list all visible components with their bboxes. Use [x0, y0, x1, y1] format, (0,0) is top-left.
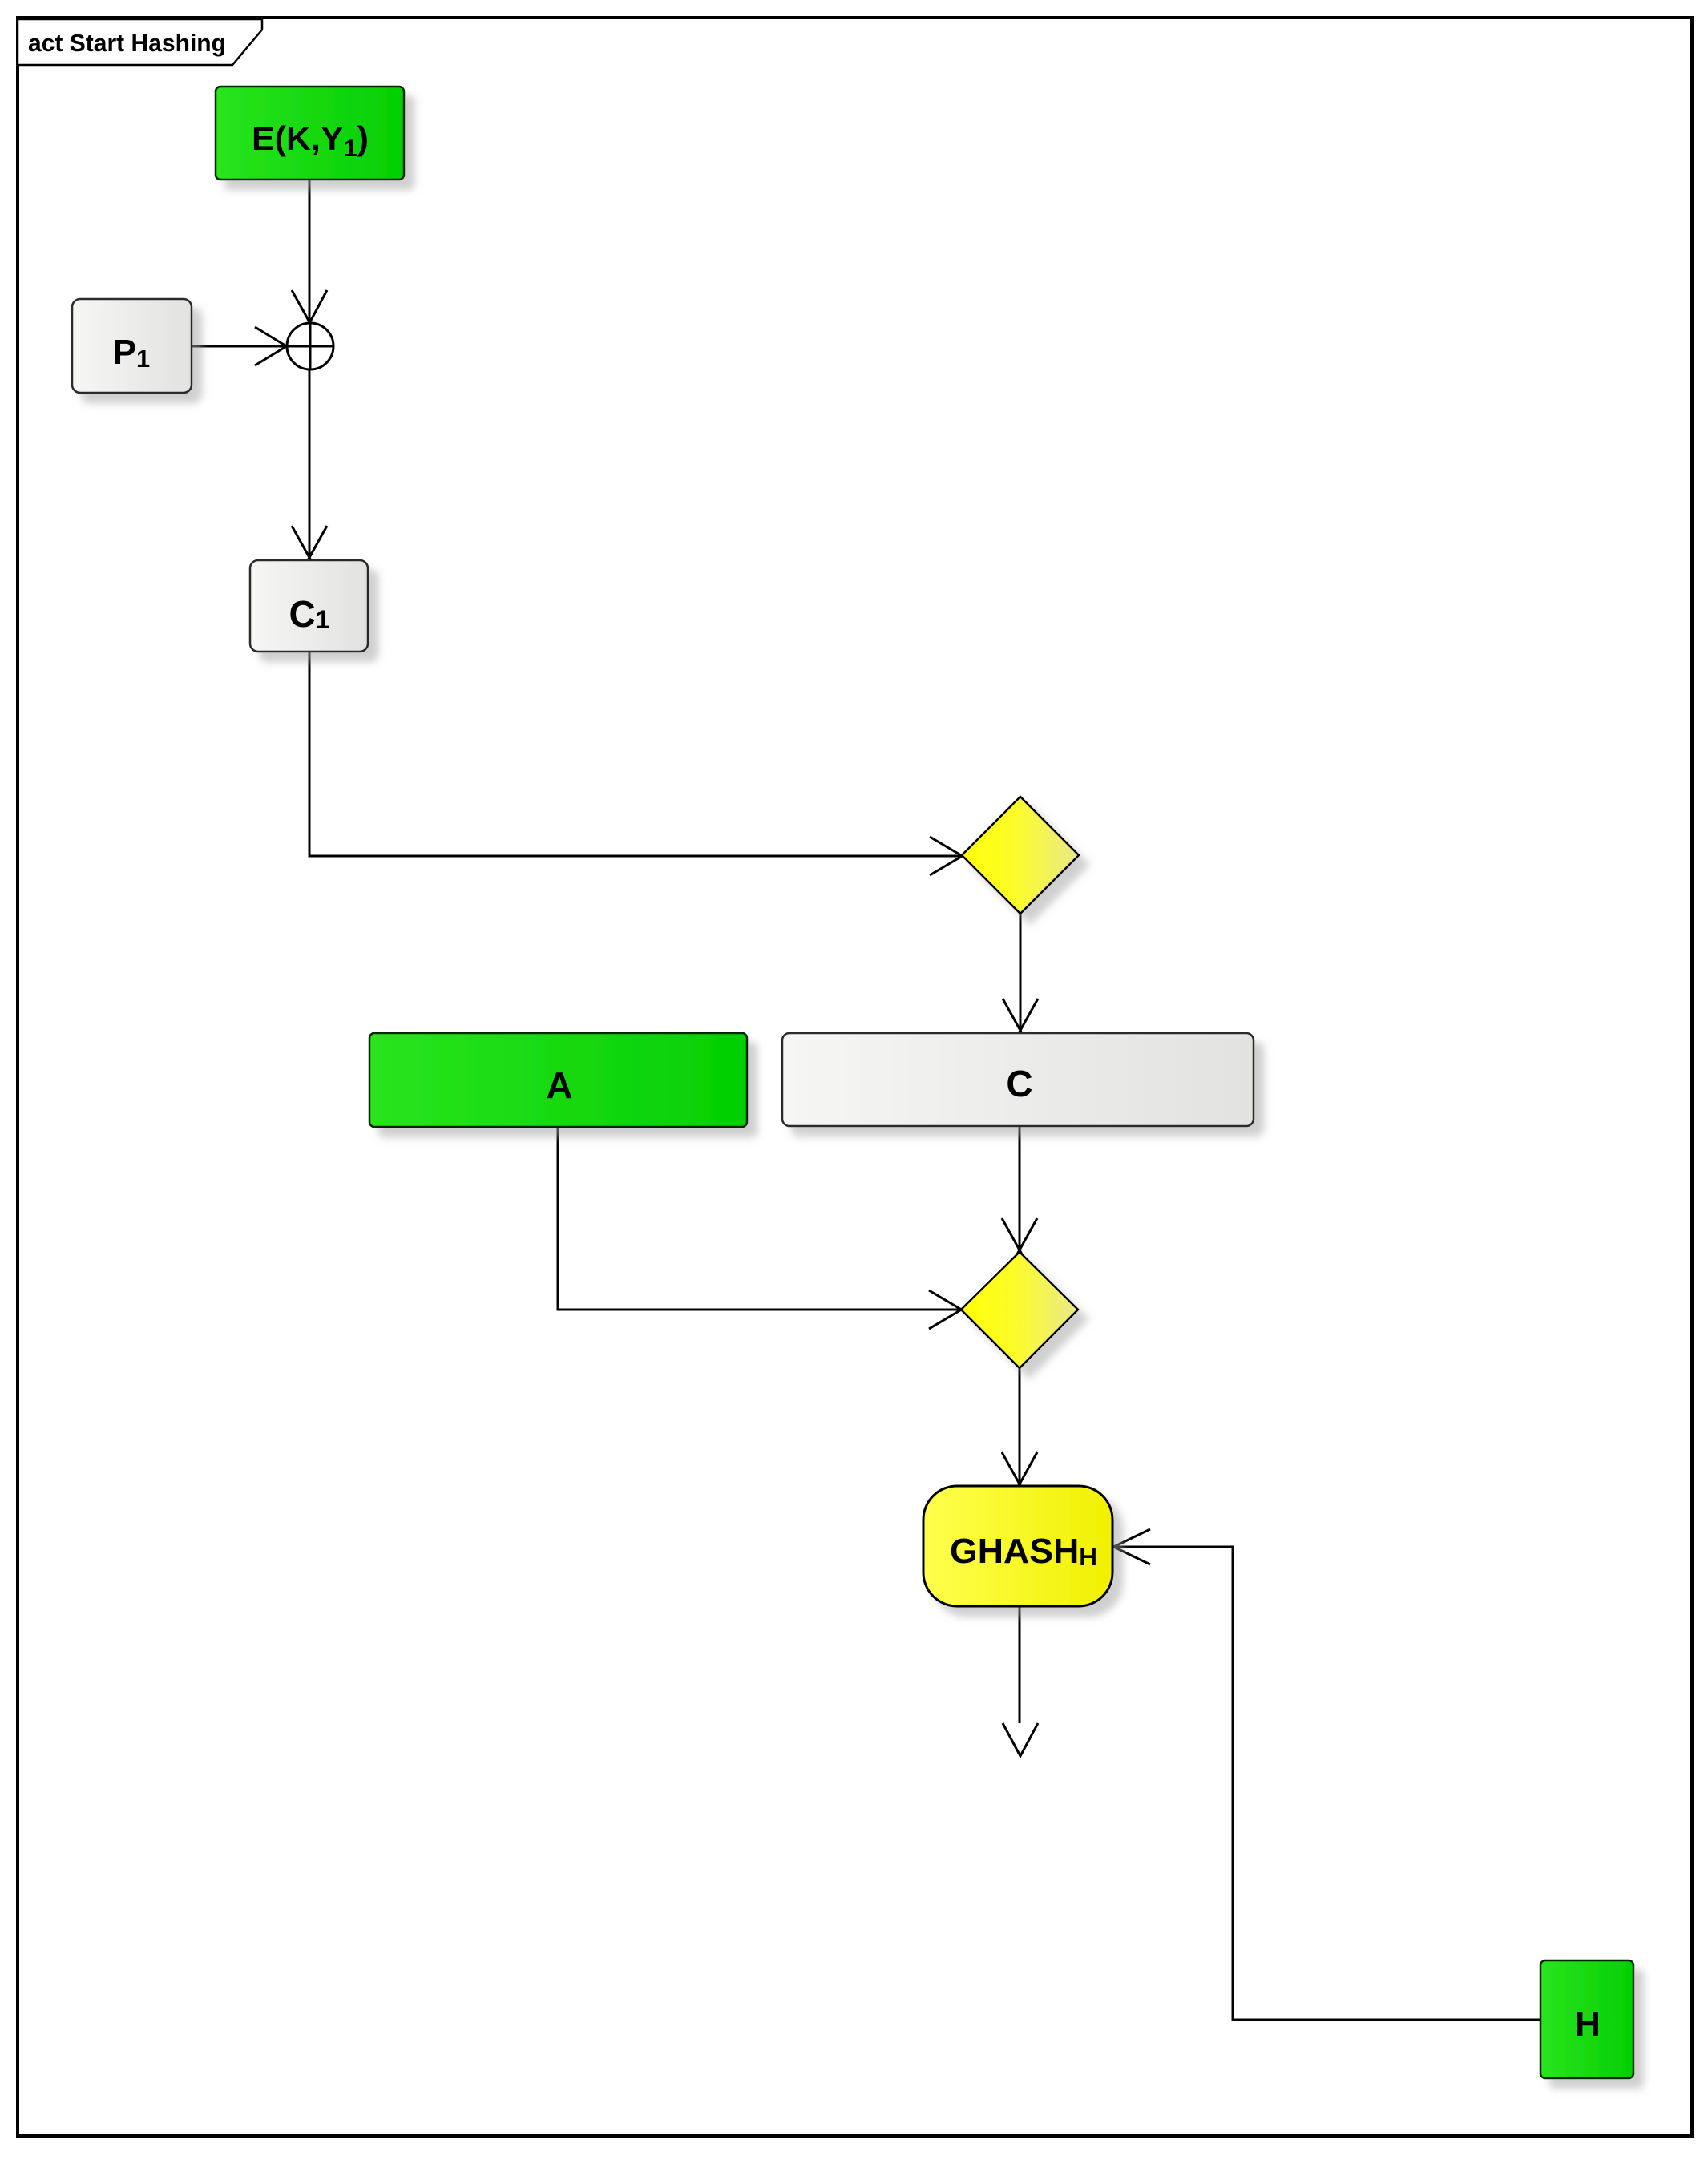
svg-text:act Start Hashing: act Start Hashing: [28, 29, 226, 57]
svg-text:A: A: [546, 1064, 572, 1106]
svg-text:H: H: [1575, 2004, 1601, 2044]
svg-text:GHASHH: GHASHH: [950, 1532, 1097, 1571]
svg-text:C: C: [1006, 1063, 1032, 1104]
